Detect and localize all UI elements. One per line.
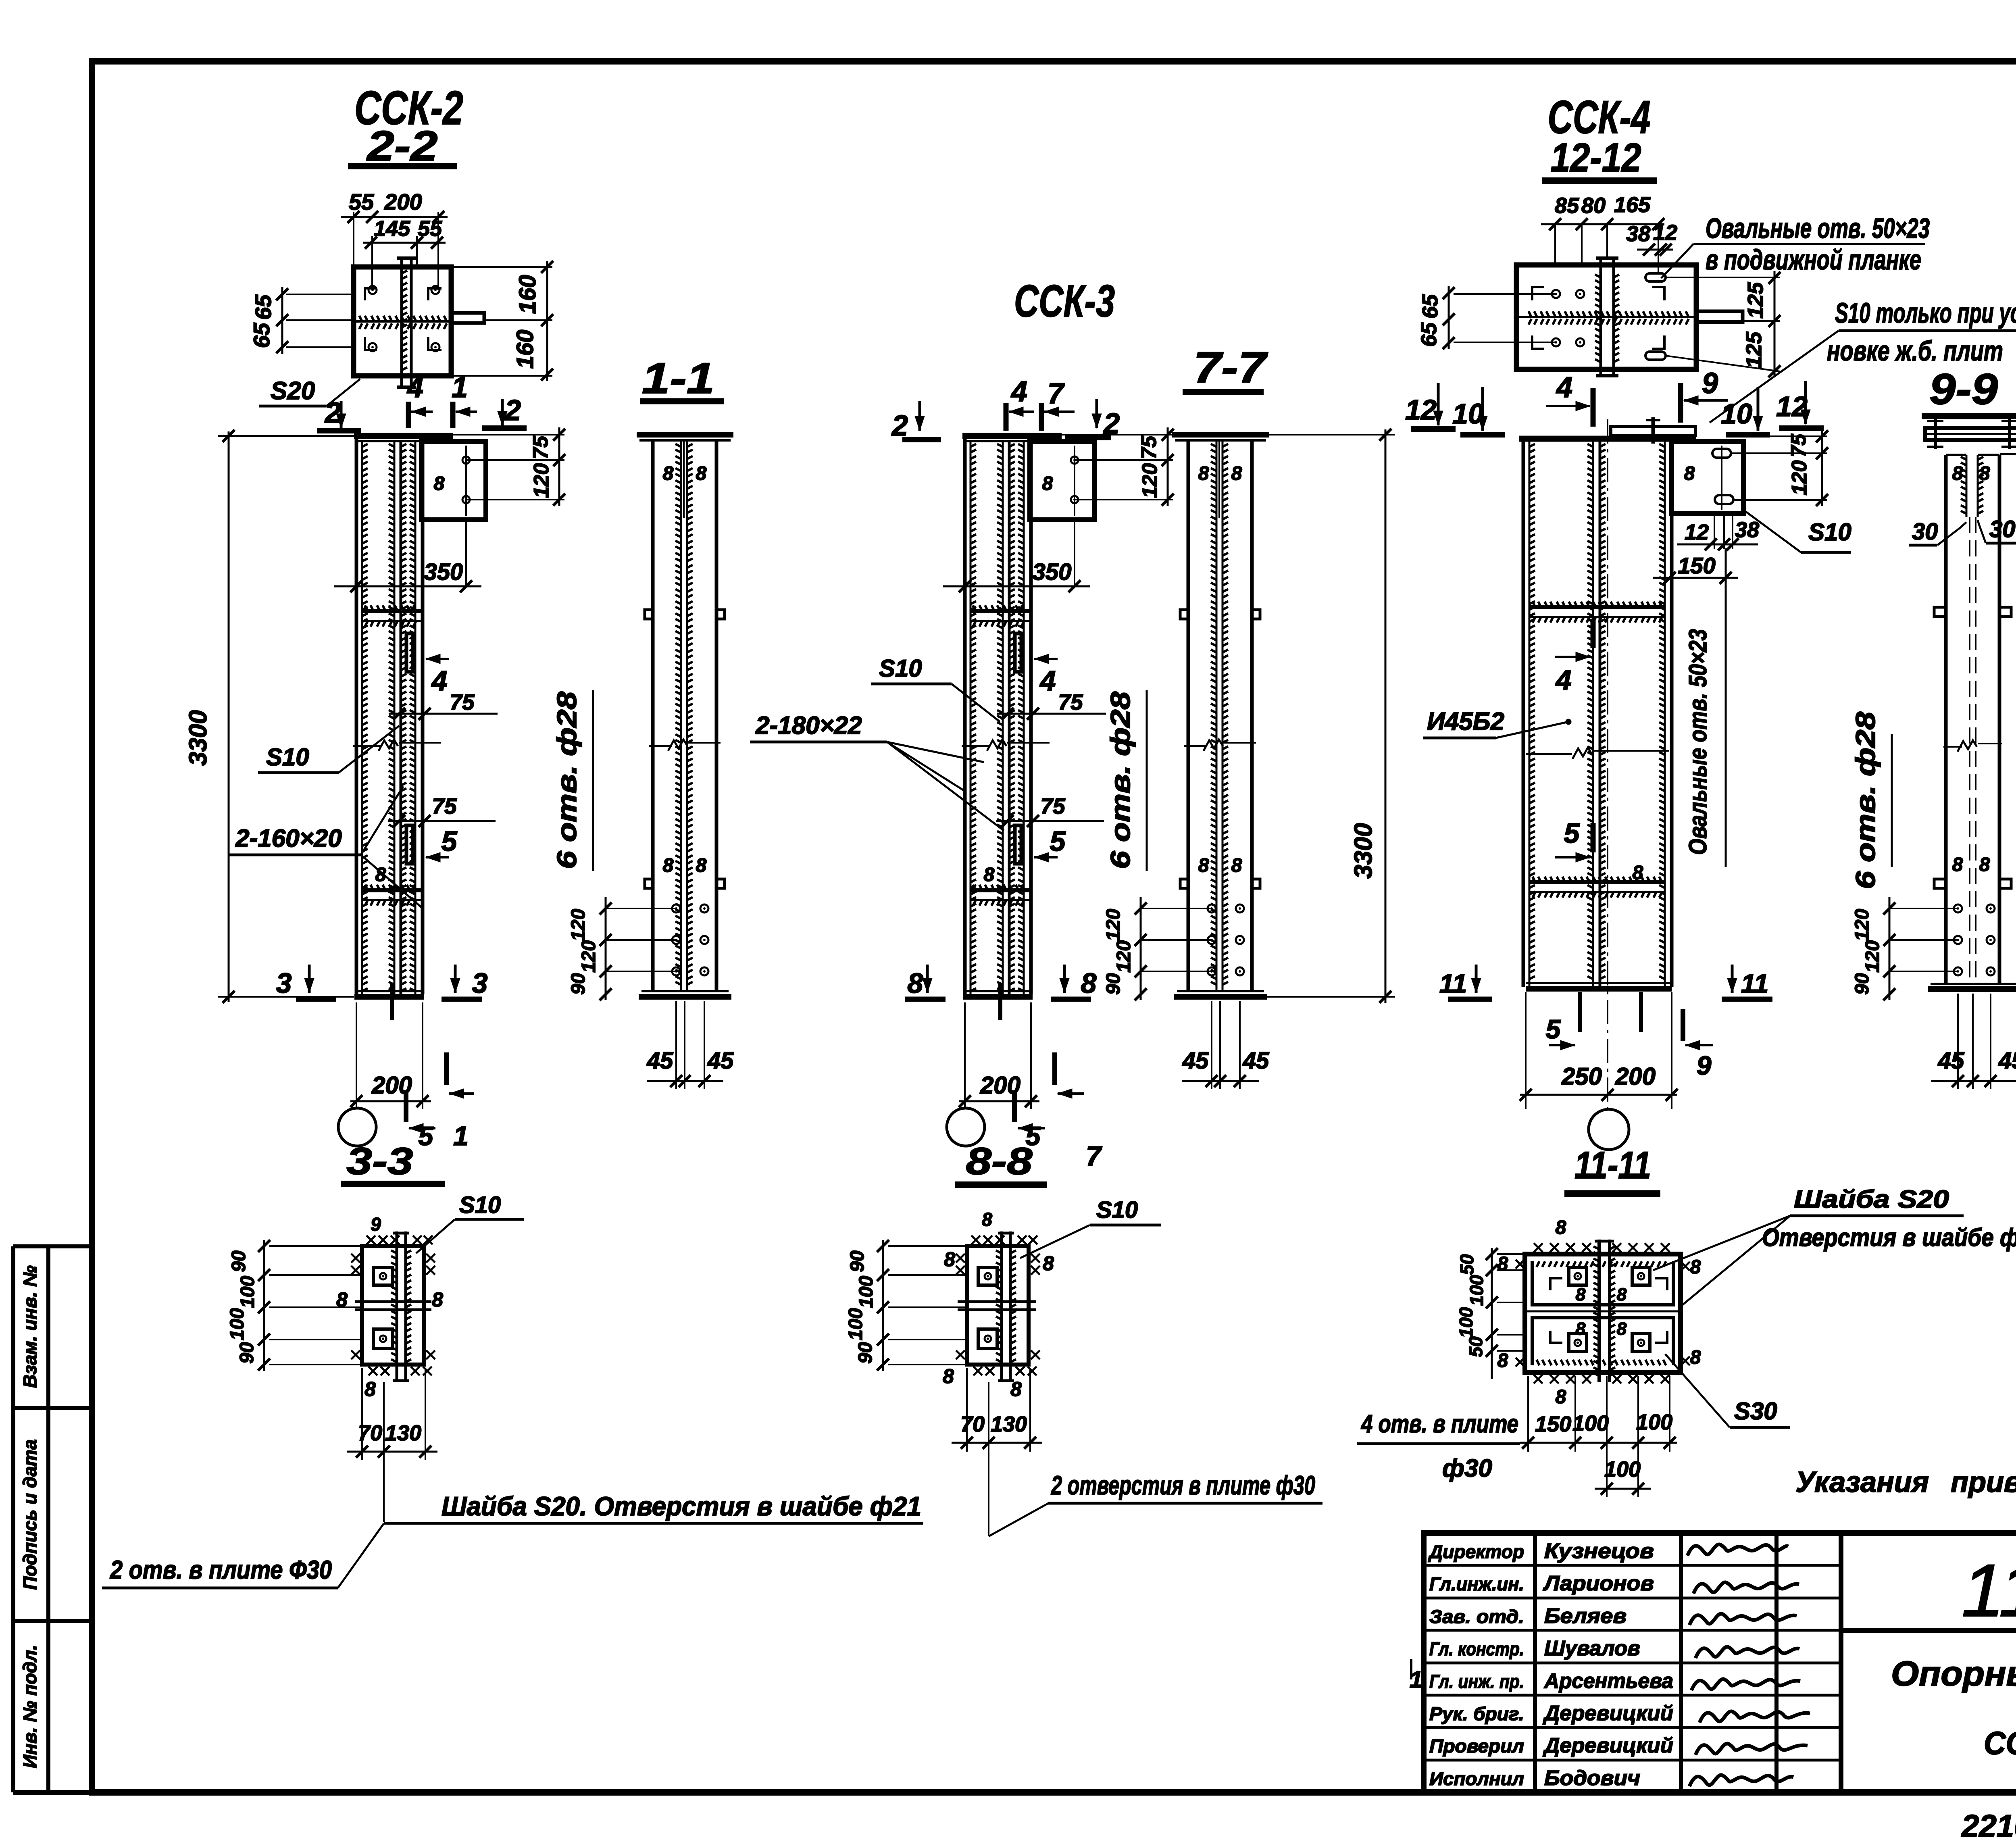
- view 9-9 column edges: [1944, 455, 1948, 985]
- svg-text:30: 30: [1912, 519, 1938, 545]
- view 1-1 stiffener tabs lower: [645, 879, 653, 888]
- svg-text:8: 8: [908, 967, 923, 999]
- svg-text:2 отверстия в плите ф30: 2 отверстия в плите ф30: [1051, 1470, 1316, 1500]
- column CCK-2 bottom stub: [390, 984, 394, 1020]
- view 1-1 break mark: [649, 745, 672, 747]
- svg-text:75: 75: [1137, 435, 1161, 459]
- svg-text:160: 160: [514, 275, 541, 314]
- svg-text:100: 100: [227, 1308, 248, 1340]
- svg-text:250: 250: [1561, 1063, 1602, 1090]
- column CCK-3 mark 5 mid: [1034, 856, 1058, 858]
- svg-text:9-9: 9-9: [1929, 365, 1998, 413]
- column CCK-2 dim 350: [334, 585, 481, 588]
- svg-text:85: 85: [1555, 194, 1579, 218]
- view 9-9 center plates: [1966, 455, 1968, 517]
- column CCK-4 centerline: [1607, 419, 1608, 1108]
- svg-text:4 отв. в плите: 4 отв. в плите: [1360, 1410, 1518, 1438]
- svg-text:90: 90: [1851, 973, 1873, 995]
- svg-text:70: 70: [358, 1421, 382, 1445]
- column CCK-3 bracket: [1030, 442, 1094, 520]
- section 3-3 bottom dims 70 130: [361, 1368, 363, 1460]
- section 12-12 corner angle marks: [1532, 287, 1544, 300]
- section 12-12 center vertical plate: [1599, 256, 1602, 377]
- view 1-1 bolts phi28: [672, 904, 680, 913]
- svg-text:8: 8: [1556, 1386, 1566, 1408]
- svg-text:8: 8: [1231, 855, 1242, 876]
- svg-text:Кузнецов: Кузнецов: [1544, 1540, 1654, 1563]
- column CCK-3 dim 75 upper: [997, 713, 1106, 715]
- svg-text:100: 100: [1572, 1411, 1609, 1436]
- svg-text:150: 150: [1535, 1412, 1571, 1436]
- svg-text:8: 8: [434, 473, 445, 494]
- column CCK-3 dim 350: [943, 585, 1090, 588]
- column CCK-4 base plate: [1526, 986, 1672, 992]
- column CCK-2 top flange: [354, 433, 453, 439]
- svg-text:2: 2: [504, 394, 521, 427]
- section 2-2 dim row 145 55: [363, 242, 446, 244]
- svg-text:8: 8: [984, 864, 995, 885]
- svg-text:50: 50: [1465, 1336, 1486, 1357]
- svg-text:S10 только при уста-: S10 только при уста-: [1835, 297, 2016, 329]
- section 12-12 web line: [1516, 316, 1696, 318]
- view 1-1 bottom flange: [639, 994, 731, 1000]
- svg-text:45: 45: [707, 1048, 734, 1074]
- svg-text:8: 8: [364, 1378, 376, 1400]
- svg-text:ССК-3: ССК-3: [1014, 276, 1115, 326]
- svg-text:150: 150: [1678, 553, 1715, 578]
- svg-text:45: 45: [1938, 1048, 1964, 1074]
- svg-text:100: 100: [1636, 1410, 1672, 1434]
- svg-text:8: 8: [663, 463, 674, 484]
- svg-text:120: 120: [1138, 463, 1162, 498]
- svg-text:4: 4: [431, 665, 448, 696]
- svg-text:S10: S10: [1808, 519, 1851, 546]
- svg-text:Беляев: Беляев: [1544, 1604, 1627, 1628]
- svg-text:2-160×20: 2-160×20: [235, 825, 342, 852]
- svg-text:8: 8: [943, 1365, 954, 1388]
- svg-text:5: 5: [1564, 817, 1580, 849]
- svg-text:Арсентьева: Арсентьева: [1543, 1669, 1673, 1693]
- column CCK-4 podvizhnaya planka on top: [1611, 427, 1695, 435]
- svg-text:22100: 22100: [1961, 1808, 2016, 1844]
- column CCK-2 stiffener 1: [362, 609, 423, 613]
- column CCK-4 vertical edges: [1522, 439, 1525, 987]
- view 7-7 top flange: [1172, 432, 1269, 438]
- section 11-11 bottom dims 150 100 100: [1527, 1376, 1529, 1452]
- section 11-11 washer squares with bolts: [1569, 1267, 1587, 1285]
- section 8-8 box: [967, 1246, 1029, 1365]
- svg-text:45: 45: [647, 1048, 673, 1074]
- svg-text:12: 12: [1653, 221, 1677, 245]
- svg-text:8: 8: [1576, 1319, 1586, 1339]
- section 11-11 left dims 50 100 100 50: [1491, 1248, 1493, 1379]
- svg-text:6 отв. ф28: 6 отв. ф28: [1850, 712, 1881, 889]
- column CCK-3 top flange: [962, 433, 1062, 439]
- section 12-12 right dim 125 125: [1774, 271, 1776, 377]
- view 9-9 dim 90 120 120: [1889, 897, 1891, 1000]
- column CCK-3 position circle: [947, 1108, 985, 1146]
- column CCK-4 bottom mark 9: [1681, 1009, 1685, 1041]
- svg-text:Овальные отв. 50×23: Овальные отв. 50×23: [1684, 629, 1712, 855]
- svg-text:8: 8: [432, 1288, 443, 1311]
- svg-text:Проверил: Проверил: [1429, 1736, 1524, 1756]
- column CCK-3 weld hatches: [971, 444, 976, 991]
- column CCK-4 weld hatches: [1529, 444, 1535, 979]
- view 1-1 center slot: [683, 440, 685, 518]
- svg-text:65: 65: [1418, 294, 1442, 319]
- view 9-9 dim 45 45: [1957, 994, 1959, 1089]
- section 2-2 right stub plate: [451, 313, 484, 323]
- section 12-12 left dim 65 65: [1448, 286, 1450, 349]
- svg-text:38: 38: [1735, 518, 1759, 542]
- view 1-1 stiffener tabs upper: [645, 610, 653, 619]
- svg-text:8: 8: [1690, 1256, 1701, 1278]
- svg-text:75: 75: [450, 690, 475, 715]
- section 8-8 hatches: [996, 1250, 1002, 1362]
- svg-text:И45Б2: И45Б2: [1427, 708, 1504, 735]
- column CCK-2 dim 75 lower: [388, 820, 496, 822]
- svg-text:5: 5: [1546, 1014, 1561, 1044]
- section 2-2 web horizontal line: [354, 320, 451, 323]
- column CCK-4 position circle: [1589, 1109, 1629, 1150]
- column CCK-4 dim 250 200: [1525, 992, 1527, 1109]
- svg-text:Рук. бриг.: Рук. бриг.: [1429, 1703, 1524, 1724]
- svg-text:8: 8: [982, 1209, 992, 1230]
- svg-text:12: 12: [1776, 391, 1808, 422]
- svg-text:1: 1: [453, 1121, 469, 1151]
- svg-text:Зав. отд.: Зав. отд.: [1429, 1606, 1524, 1627]
- svg-text:7: 7: [1086, 1141, 1102, 1171]
- svg-text:65: 65: [250, 294, 276, 320]
- view 9-9 bottom flange: [1928, 986, 2016, 992]
- svg-text:90: 90: [847, 1250, 868, 1272]
- svg-text:120: 120: [530, 463, 553, 498]
- svg-text:90: 90: [236, 1342, 258, 1364]
- svg-text:65: 65: [1417, 322, 1441, 347]
- svg-text:приведены: приведены: [1951, 1466, 2016, 1498]
- title number cell divider: [1841, 1628, 2016, 1633]
- signatures scribbles: [1687, 1544, 1788, 1556]
- title block outer: [1424, 1533, 2016, 1792]
- view 7-7 weld hatches: [1211, 444, 1216, 985]
- column CCK-2 dim 200 bottom: [356, 1002, 357, 1109]
- svg-text:3: 3: [472, 967, 488, 999]
- svg-text:120: 120: [1851, 909, 1873, 941]
- svg-text:2-180×22: 2-180×22: [755, 712, 862, 740]
- svg-text:75: 75: [1058, 690, 1083, 715]
- svg-text:Деревицкий: Деревицкий: [1543, 1734, 1673, 1757]
- svg-text:200: 200: [384, 189, 422, 215]
- view 7-7 center slot: [1218, 440, 1220, 518]
- svg-text:Шайба S20. Отверстия в шайбе: Шайба S20. Отверстия в шайбе ф21: [442, 1491, 921, 1521]
- svg-text:Опорные стойки:: Опорные стойки:: [1891, 1654, 2016, 1693]
- section 11-11 channel webs: [1532, 1261, 1673, 1305]
- svg-text:100: 100: [1604, 1457, 1641, 1481]
- svg-text:130: 130: [385, 1421, 421, 1445]
- svg-text:11: 11: [1439, 969, 1467, 998]
- column CCK-2 mark 4 mid: [426, 658, 449, 660]
- CCK-3 bottom mark 7: [1052, 1052, 1057, 1085]
- section 2-2 left dim 65 65: [281, 287, 283, 354]
- section 8-8 left dims 90 100 100 90: [882, 1240, 884, 1371]
- column CCK-4 bottom mark 5: [1549, 1044, 1575, 1046]
- svg-text:3-3: 3-3: [347, 1140, 413, 1183]
- column CCK-4 break mark: [1526, 753, 1572, 755]
- svg-text:8: 8: [944, 1248, 955, 1271]
- svg-text:S20: S20: [271, 377, 315, 405]
- svg-text:120: 120: [568, 909, 589, 941]
- svg-text:100: 100: [237, 1276, 258, 1308]
- column CCK-2 flat bar 4: [406, 633, 413, 672]
- svg-text:100: 100: [1456, 1307, 1477, 1338]
- svg-text:ССК-2;ССК-3;ССК-4: ССК-2;ССК-3;ССК-4: [1984, 1725, 2016, 1761]
- column CCK-4 top flange: [1519, 436, 1696, 442]
- view 7-7 bolts phi28: [1208, 904, 1216, 913]
- svg-text:3300: 3300: [184, 710, 212, 766]
- svg-text:4: 4: [1555, 664, 1572, 696]
- svg-text:8: 8: [1231, 463, 1242, 484]
- CCK-2 bottom mark 1: [444, 1052, 449, 1085]
- svg-text:100: 100: [856, 1276, 877, 1308]
- svg-text:8: 8: [1952, 463, 1963, 484]
- svg-text:8: 8: [1617, 1285, 1627, 1304]
- svg-text:70: 70: [960, 1412, 985, 1436]
- svg-text:80: 80: [1581, 194, 1606, 218]
- svg-text:8: 8: [1952, 854, 1963, 875]
- column CCK-3 flat bar 5: [1015, 825, 1021, 864]
- svg-text:45: 45: [1182, 1048, 1209, 1074]
- column CCK-2 flat bar 5: [406, 825, 413, 864]
- CCK-2 dim 3300 left: [218, 435, 354, 437]
- svg-text:2-2: 2-2: [366, 123, 437, 170]
- section 12-12 bolts: [1552, 290, 1560, 298]
- svg-text:Директор: Директор: [1428, 1541, 1524, 1562]
- svg-text:11: 11: [1741, 969, 1769, 998]
- dim 3300 right of 7-7: [1254, 434, 1395, 435]
- column CCK-4 stiffener 2: [1529, 880, 1665, 884]
- section 2-2 center vertical plate: [400, 257, 403, 388]
- svg-text:Подпись и дата: Подпись и дата: [19, 1440, 40, 1590]
- view 9-9 stiffener tabs: [1934, 607, 1946, 617]
- svg-text:120: 120: [1862, 940, 1883, 973]
- column CCK-4 bracket: [1672, 442, 1743, 513]
- svg-text:1-1: 1-1: [642, 354, 714, 402]
- svg-text:S10: S10: [879, 655, 922, 682]
- svg-text:55: 55: [349, 189, 374, 215]
- column CCK-2 break mark: [353, 745, 381, 747]
- column CCK-2 vertical edges: [355, 436, 358, 994]
- svg-text:90: 90: [1103, 973, 1124, 995]
- svg-text:8: 8: [1979, 463, 1990, 484]
- section 12-12 right bar: [1696, 311, 1743, 322]
- section 12-12 plate: [1516, 265, 1696, 369]
- column CCK-3 vertical edges: [963, 436, 967, 994]
- svg-text:5: 5: [1050, 825, 1066, 857]
- svg-text:Указания: Указания: [1795, 1466, 1929, 1498]
- svg-text:90: 90: [568, 973, 589, 995]
- view 1-1 weld hatches: [675, 444, 681, 985]
- section 12-12 dims 85 80 165: [1541, 223, 1664, 225]
- column CCK-3 bracket dim 75 120: [1075, 459, 1173, 461]
- section 3-3 hatches: [391, 1250, 397, 1362]
- section 2-2 plan plate: [354, 267, 451, 376]
- svg-text:7-7: 7-7: [1193, 343, 1268, 392]
- column CCK-2 weld hatches: [362, 444, 368, 991]
- section 11-11 box: [1525, 1254, 1681, 1373]
- svg-text:2 отв. в плите Ф30: 2 отв. в плите Ф30: [110, 1555, 332, 1584]
- section 2-2 bolts: [369, 286, 377, 294]
- svg-text:Деревицкий: Деревицкий: [1543, 1702, 1673, 1725]
- section 8-8 weld x marks: [971, 1236, 980, 1244]
- svg-text:ф30: ф30: [1442, 1454, 1492, 1482]
- svg-text:90: 90: [855, 1342, 876, 1364]
- svg-text:10: 10: [1452, 398, 1484, 429]
- title block signature rows: [1424, 1564, 1841, 1567]
- section 11-11 corner angles: [1550, 1278, 1562, 1290]
- CCK-3 bottom mark 5: [1012, 1090, 1017, 1122]
- svg-text:145: 145: [374, 217, 410, 241]
- svg-text:4: 4: [406, 371, 423, 404]
- svg-text:7: 7: [1048, 377, 1065, 410]
- svg-text:200: 200: [1615, 1063, 1656, 1090]
- section 3-3 mid web lines: [355, 1300, 431, 1303]
- view 9-9 bolts: [1954, 904, 1962, 913]
- column CCK-3 dim 200 bottom: [964, 1002, 966, 1109]
- svg-text:8: 8: [696, 855, 707, 876]
- svg-text:S30: S30: [1734, 1398, 1777, 1425]
- svg-text:8: 8: [1556, 1217, 1566, 1238]
- view 7-7 break mark: [1184, 745, 1207, 747]
- section 3-3 left dims 90 100 100 90: [263, 1240, 265, 1371]
- section 12-12 oval holes: [1645, 273, 1666, 281]
- section 2-2 corner angle marks: [365, 288, 377, 300]
- svg-text:38: 38: [1626, 222, 1650, 246]
- section 3-3 washer squares with bolts: [373, 1267, 392, 1285]
- svg-text:30: 30: [1989, 516, 2016, 542]
- view 1-1 dim 45 45 bottom: [675, 1001, 677, 1089]
- view 7-7 stiffener tabs upper: [1180, 610, 1188, 619]
- svg-text:75: 75: [1787, 433, 1810, 457]
- svg-text:11-11: 11-11: [1574, 1144, 1651, 1187]
- svg-text:6 отв. ф28: 6 отв. ф28: [552, 692, 582, 869]
- stamp column outer: [11, 1246, 15, 1792]
- column CCK-4 bracket dim 75 120: [1743, 435, 1827, 437]
- svg-text:9: 9: [1697, 1050, 1712, 1080]
- section 2-2 dim row 55 200: [341, 216, 448, 218]
- svg-text:8: 8: [663, 855, 674, 876]
- svg-text:6 отв. ф28: 6 отв. ф28: [1105, 692, 1136, 869]
- svg-text:8: 8: [1497, 1350, 1508, 1371]
- view 1-1 vertical edges: [651, 440, 655, 991]
- svg-text:4: 4: [1010, 375, 1027, 408]
- svg-text:3: 3: [276, 967, 292, 999]
- svg-text:8-8: 8-8: [966, 1140, 1033, 1183]
- column CCK-2 dim 75 upper: [389, 713, 498, 715]
- section 11-11 weld x marks: [1534, 1243, 1543, 1252]
- section 2-2 right dim 160 160: [546, 261, 548, 381]
- svg-text:9: 9: [371, 1214, 381, 1235]
- svg-text:4: 4: [1556, 371, 1572, 404]
- svg-text:8: 8: [1690, 1347, 1701, 1368]
- column CCK-4 dim 150: [1653, 577, 1738, 579]
- section 8-8 vertical plate stubs: [1000, 1231, 1003, 1382]
- column CCK-3 dim 75 lower: [996, 820, 1104, 822]
- svg-text:12: 12: [1685, 520, 1709, 544]
- column CCK-2 position circle: [338, 1108, 376, 1146]
- svg-text:75: 75: [432, 794, 457, 819]
- section 12-12 dims 38 12: [1637, 249, 1673, 251]
- svg-text:5: 5: [419, 1121, 434, 1151]
- section 8-8 bottom dims 70 130: [966, 1368, 968, 1452]
- svg-text:4: 4: [1039, 665, 1056, 696]
- svg-text:75: 75: [529, 435, 552, 459]
- section 3-3 box: [362, 1246, 424, 1365]
- svg-text:8: 8: [696, 463, 707, 484]
- svg-text:350: 350: [1033, 559, 1072, 585]
- svg-text:100: 100: [1466, 1275, 1487, 1306]
- svg-text:S10: S10: [459, 1192, 501, 1218]
- CCK-2 bottom mark 5: [404, 1090, 408, 1122]
- svg-text:8: 8: [1684, 463, 1695, 484]
- column CCK-4 stiffener 1: [1529, 605, 1665, 609]
- svg-text:8: 8: [1198, 463, 1209, 484]
- svg-text:S10: S10: [266, 744, 309, 771]
- column CCK-3 break mark: [962, 745, 990, 747]
- svg-text:350: 350: [424, 559, 463, 585]
- svg-text:5: 5: [442, 825, 458, 857]
- svg-text:2: 2: [324, 397, 341, 429]
- svg-text:Инв. № подл.: Инв. № подл.: [19, 1645, 40, 1768]
- svg-text:165: 165: [1614, 193, 1651, 217]
- column CCK-2 base plate: [354, 994, 424, 1000]
- svg-text:120: 120: [578, 940, 600, 973]
- svg-text:120: 120: [1113, 940, 1135, 973]
- svg-text:120: 120: [1103, 909, 1124, 941]
- svg-text:Шувалов: Шувалов: [1544, 1637, 1640, 1660]
- svg-text:Гл.инж.ин.: Гл.инж.ин.: [1429, 1573, 1524, 1594]
- svg-text:Овальные отв. 50×23: Овальные отв. 50×23: [1706, 213, 1930, 244]
- svg-text:120: 120: [1788, 460, 1811, 496]
- svg-text:125: 125: [1742, 331, 1766, 368]
- column CCK-2 stiffener 2: [362, 888, 423, 892]
- column CCK-3 mark 4 mid: [1034, 658, 1058, 660]
- svg-text:8: 8: [1576, 1285, 1586, 1304]
- section 11-11 hatches: [1537, 1261, 1666, 1267]
- svg-text:10: 10: [1721, 398, 1752, 429]
- title block signature table columns: [1533, 1533, 1537, 1792]
- column CCK-3 flat bar 4: [1015, 633, 1021, 672]
- svg-text:8: 8: [1081, 967, 1097, 999]
- view 9-9 bolt studs: [1934, 419, 1937, 449]
- svg-text:75: 75: [1040, 794, 1066, 819]
- svg-text:12-12: 12-12: [1551, 135, 1641, 180]
- column CCK-2 bracket: [421, 442, 486, 520]
- column CCK-3 base plate: [963, 994, 1033, 1000]
- view 1-1 top flange: [637, 432, 733, 438]
- svg-text:1: 1: [452, 371, 468, 404]
- svg-text:новке ж.б. плит: новке ж.б. плит: [1827, 335, 2003, 367]
- svg-text:45: 45: [1998, 1048, 2016, 1074]
- section 8-8 mid web lines: [958, 1300, 1036, 1303]
- svg-text:Отверстия в шайбе ф21: Отверстия в шайбе ф21: [1762, 1224, 2016, 1252]
- svg-text:100: 100: [845, 1308, 866, 1340]
- view 7-7 dim 45 45 bottom: [1211, 1001, 1212, 1089]
- svg-text:11-2464а-КМ: 11-2464а-КМ: [1962, 1549, 2016, 1632]
- view 7-7 stiffener tabs lower: [1180, 879, 1188, 888]
- view 7-7 dim 90 120 120: [1140, 897, 1142, 1000]
- column CCK-2 bracket dim 75 120: [466, 459, 564, 461]
- svg-text:8: 8: [1010, 1378, 1022, 1400]
